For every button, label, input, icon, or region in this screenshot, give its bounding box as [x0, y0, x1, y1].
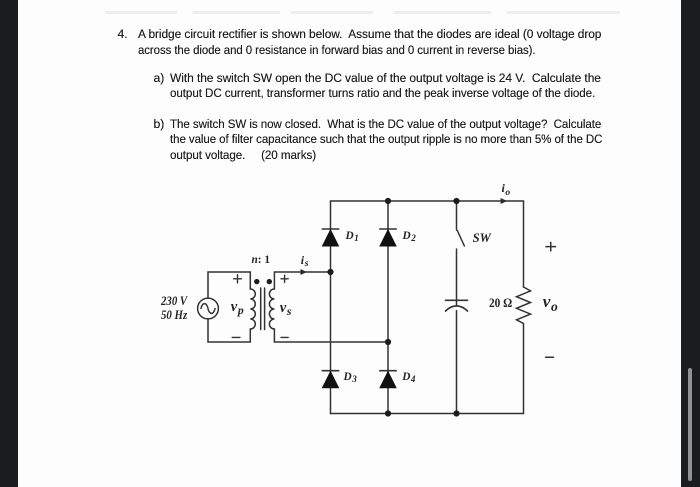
wire secondary top to bridge	[274, 272, 330, 289]
junction node (secondary bottom / bridge right)	[385, 339, 391, 345]
polarity - secondary	[281, 336, 288, 338]
label vp	[231, 299, 244, 316]
wire primary loop	[208, 272, 250, 342]
right black scan border	[681, 0, 700, 487]
capacitor C (filter)	[446, 300, 468, 413]
polarity + secondary	[281, 275, 288, 282]
label io	[502, 181, 511, 196]
transformer T1 primary winding	[250, 289, 255, 329]
label 230 V	[161, 294, 187, 309]
left black scan border	[0, 0, 18, 487]
diode D2	[380, 229, 396, 246]
arrowhead is (secondary current)	[301, 269, 307, 275]
faint cut-off text streak at top	[105, 11, 620, 15]
junction node (bottom rail / capacitor)	[453, 410, 459, 416]
transformer polarity dot (primary)	[254, 279, 259, 284]
wire bottom rail	[331, 413, 524, 415]
wire top rail	[331, 200, 524, 202]
output polarity -	[546, 356, 554, 358]
wire bridge right vertical	[387, 201, 389, 414]
diode D1	[322, 229, 338, 246]
label 20 ohm	[489, 296, 512, 311]
wire secondary bottom to bridge	[274, 329, 388, 342]
junction node (bottom rail / D4)	[385, 410, 391, 416]
junction node (top rail / switch)	[453, 198, 459, 204]
polarity + primary	[234, 275, 242, 283]
label D1	[346, 230, 359, 242]
diode D4	[380, 371, 396, 388]
label vs	[280, 300, 292, 317]
label vo	[543, 292, 558, 312]
label D3	[344, 371, 357, 383]
label D4	[402, 371, 415, 383]
label D2	[403, 230, 416, 242]
resistor RL 20 ohm	[517, 201, 531, 414]
problem statement text	[118, 27, 128, 41]
switch SW	[457, 201, 465, 305]
transformer T1 core	[261, 288, 265, 330]
wire bridge left vertical	[330, 201, 332, 414]
polarity - primary	[232, 336, 240, 338]
AC source VS (230 V 50 Hz)	[198, 298, 219, 319]
junction node (secondary top / bridge left)	[327, 269, 333, 275]
transformer polarity dot (secondary)	[267, 279, 272, 284]
diode D3	[322, 371, 338, 388]
label n:1	[252, 254, 271, 266]
arrowhead io (output current)	[501, 198, 507, 204]
label SW	[473, 231, 491, 246]
label is	[301, 253, 309, 268]
output polarity +	[546, 242, 556, 251]
junction node (top rail / D2)	[385, 198, 391, 204]
transformer T1 secondary winding	[269, 289, 274, 329]
label 50 Hz	[161, 308, 187, 323]
grey highlight stripe on right border	[688, 368, 693, 481]
